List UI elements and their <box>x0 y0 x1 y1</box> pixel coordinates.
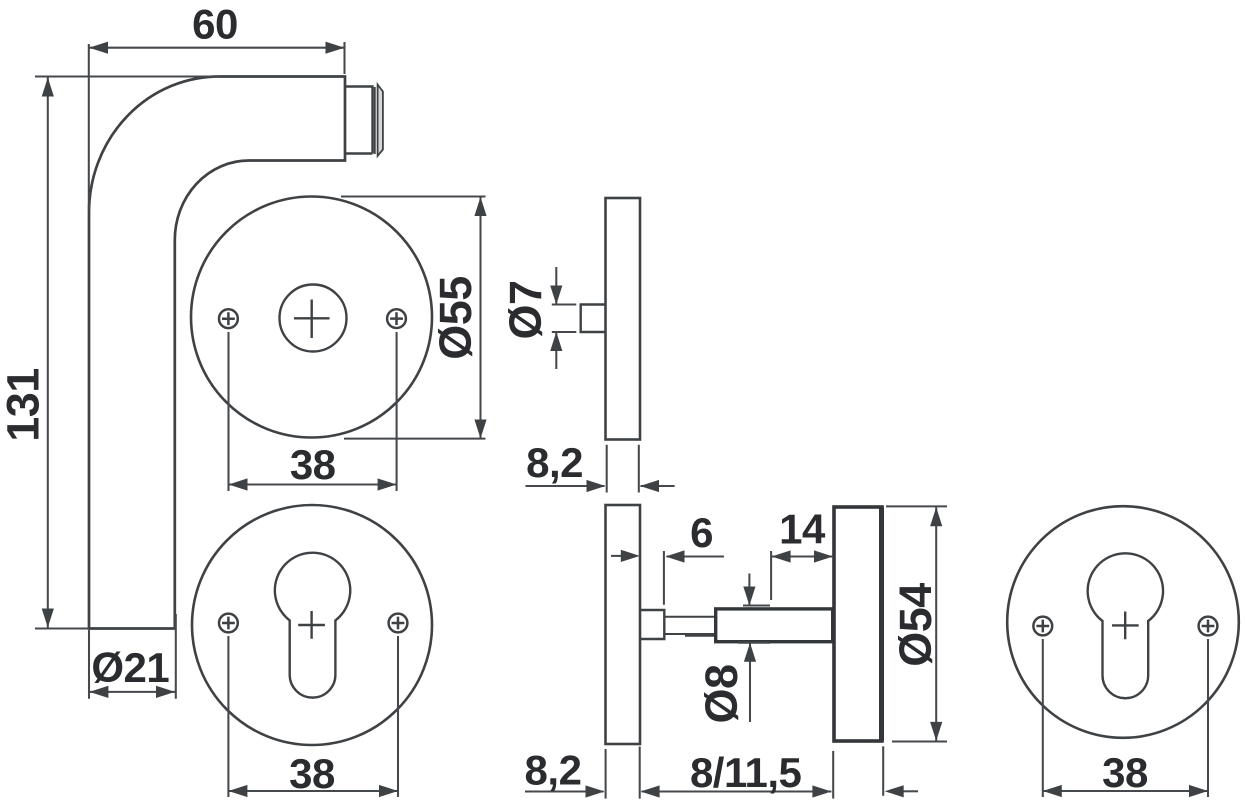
svg-text:Ø55: Ø55 <box>430 276 481 360</box>
svg-text:38: 38 <box>289 750 335 797</box>
dimension diameter 8 <box>738 574 770 723</box>
dimension diameter 55 <box>341 197 486 439</box>
arrow on lower plate <box>611 555 622 557</box>
dimension 14 <box>771 551 833 600</box>
dimension 38 right rose <box>1043 639 1208 797</box>
spindle cap end <box>378 85 383 157</box>
right rose right screw <box>1199 617 1218 636</box>
svg-text:Ø21: Ø21 <box>91 644 169 691</box>
dimension 8,2 upper <box>526 445 675 493</box>
right rose left screw <box>1033 617 1052 636</box>
svg-text:38: 38 <box>1102 749 1148 796</box>
dimension 38 upper rose <box>229 332 397 491</box>
right rose euro profile cutout <box>1088 553 1163 698</box>
handle neck <box>345 87 373 154</box>
svg-text:14: 14 <box>779 505 826 552</box>
upper rose left screw <box>219 309 238 328</box>
svg-text:8,2: 8,2 <box>525 747 582 794</box>
svg-text:8/11,5: 8/11,5 <box>690 749 802 796</box>
reference arrow at thick plate face <box>883 746 918 796</box>
spindle cap collar line <box>374 87 376 154</box>
dimension diameter 21 <box>89 614 176 699</box>
lower rose right screw <box>389 614 408 633</box>
right rose center cross <box>1112 612 1139 640</box>
thick rose plate side view <box>834 507 882 741</box>
dimension 131 <box>35 77 220 629</box>
svg-text:Ø7: Ø7 <box>500 280 551 339</box>
svg-text:Ø8: Ø8 <box>696 664 747 723</box>
dimension diameter 7 <box>552 267 577 369</box>
right rose circle <box>1007 506 1239 738</box>
upper rose circle <box>191 197 432 438</box>
dimension 8/11,5 <box>674 751 833 799</box>
lower rose euro profile cutout <box>275 553 350 698</box>
upper side-view spindle stub <box>581 305 606 333</box>
dimension diameter 54 <box>886 506 947 741</box>
lever handle outline <box>89 77 345 629</box>
lower side-view rose plate <box>606 505 641 744</box>
upper rose center cross <box>294 300 330 339</box>
spindle hub block <box>640 610 664 639</box>
svg-text:6: 6 <box>690 509 713 556</box>
svg-text:Ø54: Ø54 <box>890 583 941 667</box>
dimension 6 <box>664 551 724 605</box>
lower rose circle <box>192 505 432 745</box>
svg-text:131: 131 <box>0 368 49 442</box>
lower rose left screw <box>219 614 238 633</box>
upper side-view rose plate <box>606 198 641 440</box>
dimension 38 lower rose <box>228 636 398 797</box>
spindle end block <box>716 609 833 642</box>
svg-text:60: 60 <box>192 1 238 48</box>
dimension 60 <box>89 42 345 210</box>
upper rose hub circle <box>280 285 347 352</box>
svg-text:38: 38 <box>290 441 336 488</box>
spindle bar <box>664 617 716 636</box>
svg-text:8,2: 8,2 <box>526 439 583 486</box>
upper rose right screw <box>387 309 406 328</box>
thick plate face edge <box>879 507 884 741</box>
lower rose center cross <box>298 611 325 639</box>
dimension 8,2 lower <box>525 747 674 799</box>
